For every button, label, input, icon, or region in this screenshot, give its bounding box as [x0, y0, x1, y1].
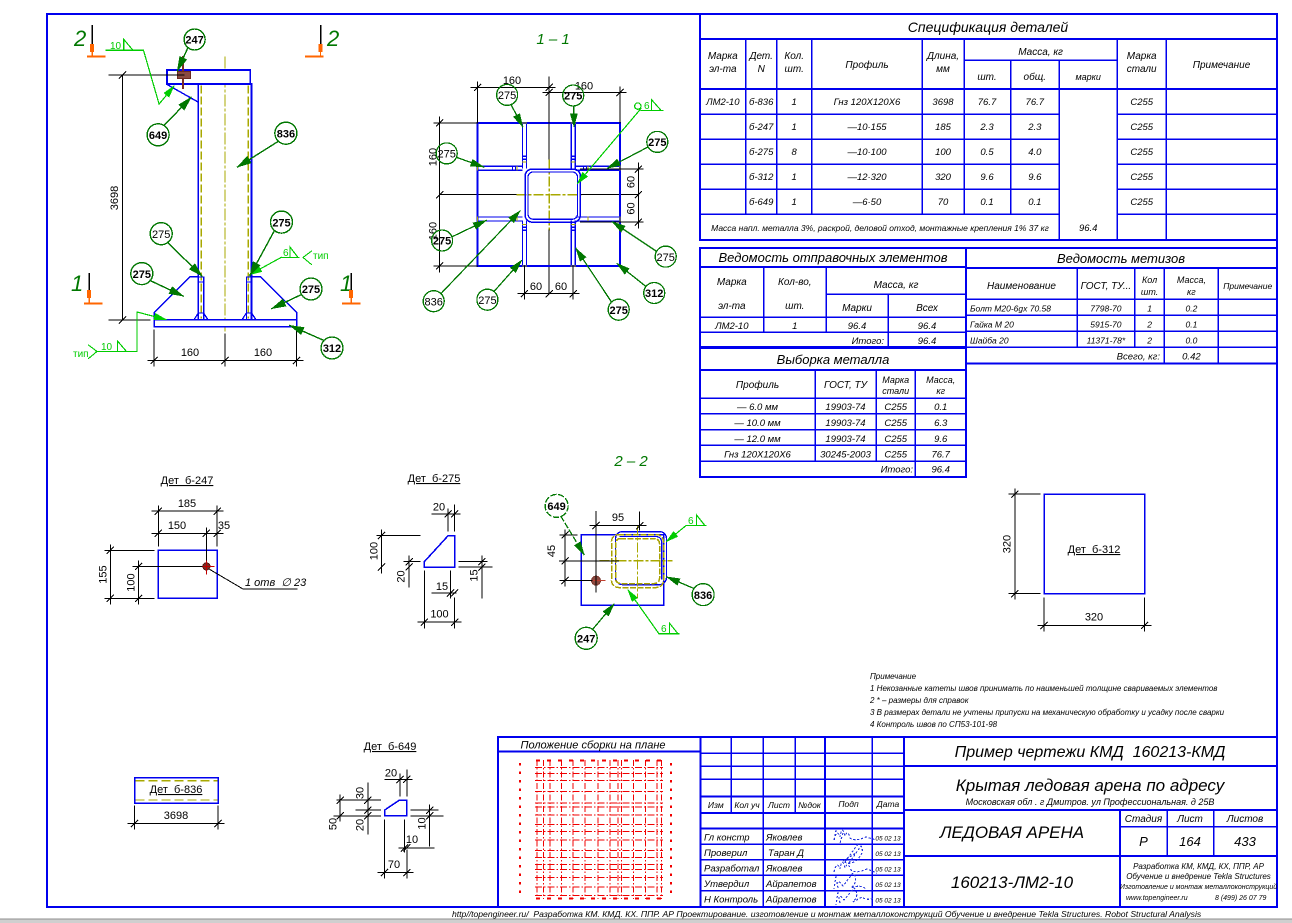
svg-text:185: 185	[935, 122, 952, 133]
vedomost metizov table frame	[966, 248, 1277, 364]
svg-text:275: 275	[610, 305, 628, 317]
callout 275 s11 bottom	[477, 261, 522, 311]
svg-text:Масса, кг: Масса, кг	[874, 280, 919, 291]
vyborka metalla table frame	[700, 348, 966, 477]
hidden dashes at stiffener ends	[478, 123, 621, 266]
svg-text:Масса,: Масса,	[1177, 275, 1206, 285]
svg-text:96.4: 96.4	[918, 336, 937, 347]
svg-text:96.4: 96.4	[1079, 223, 1098, 234]
svg-text:— 10.0 мм: — 10.0 мм	[733, 418, 781, 429]
svg-text:19903-74: 19903-74	[825, 418, 865, 429]
svg-text:649: 649	[547, 501, 565, 513]
svg-text:тип: тип	[313, 251, 329, 262]
svg-text:649: 649	[149, 130, 167, 142]
title texts	[939, 744, 1277, 902]
svg-text:С255: С255	[884, 450, 907, 461]
svg-text:0.0: 0.0	[1185, 336, 1197, 346]
svg-text:1 – 1: 1 – 1	[536, 31, 569, 48]
svg-text:тип: тип	[73, 349, 89, 360]
svg-text:Айрапетов: Айрапетов	[765, 895, 817, 906]
svg-text:76.7: 76.7	[1026, 97, 1045, 108]
svg-text:Марка: Марка	[882, 375, 909, 385]
svg-text:433: 433	[1234, 834, 1256, 849]
callout 247 s22	[575, 604, 614, 649]
svg-text:05 02 13: 05 02 13	[875, 882, 901, 889]
polozhenie sborki box	[498, 737, 701, 907]
svg-text:Дет б-247: Дет б-247	[161, 475, 214, 487]
svg-text:312: 312	[645, 288, 663, 300]
plan grid red	[520, 760, 671, 899]
svg-text:15: 15	[436, 581, 448, 593]
section mark 2 top-right	[306, 26, 339, 57]
callout 275 s11 left	[436, 143, 483, 167]
centerline vertical	[548, 77, 550, 160]
weld 6 s22 top-right	[667, 515, 707, 542]
svg-text:Гл констр: Гл констр	[704, 833, 750, 844]
svg-text:2: 2	[73, 26, 86, 51]
notes text	[869, 672, 1225, 729]
svg-text:45: 45	[546, 545, 558, 557]
svg-text:Дет б-275: Дет б-275	[408, 473, 461, 485]
spec table data	[705, 97, 1154, 234]
svg-text:05 02 13: 05 02 13	[875, 836, 901, 843]
base plate outline 312	[478, 123, 621, 266]
svg-text:1 Некозанные катеты швов прин: 1 Некозанные катеты швов принимать по на…	[870, 684, 1217, 693]
svg-text:Всего, кг:: Всего, кг:	[1117, 352, 1161, 363]
svg-text:Дет б-836: Дет б-836	[150, 784, 203, 796]
svg-text:2.3: 2.3	[1027, 122, 1042, 133]
svg-text:б-312: б-312	[749, 172, 774, 183]
svg-text:ЛМ2-10: ЛМ2-10	[714, 321, 749, 332]
svg-text:С255: С255	[1130, 97, 1153, 108]
right bottom gusset 275	[252, 277, 297, 320]
tube hidden walls	[201, 86, 248, 318]
svg-text:8 (499) 26 07 79: 8 (499) 26 07 79	[1215, 895, 1266, 902]
svg-text:С255: С255	[1130, 122, 1153, 133]
svg-text:275: 275	[302, 284, 320, 296]
svg-text:Кол уч: Кол уч	[734, 800, 760, 810]
detail b-649 dims	[334, 770, 443, 878]
dim 3698 vertical	[109, 75, 184, 320]
svg-text:11371-78*: 11371-78*	[1087, 336, 1126, 346]
svg-text:20: 20	[433, 502, 445, 514]
svg-text:4.0: 4.0	[1028, 147, 1042, 158]
svg-text:05 02 13: 05 02 13	[875, 898, 901, 905]
callout 312 s11	[617, 264, 665, 304]
svg-text:б-836: б-836	[749, 97, 774, 108]
TITLEBLOCK	[498, 672, 1277, 907]
section 2-2 tube above (solid)	[616, 532, 667, 585]
svg-text:Наименование: Наименование	[987, 281, 1056, 292]
detail b-836 dim 3698	[128, 806, 224, 829]
svg-text:С255: С255	[1130, 147, 1153, 158]
svg-text:275: 275	[152, 229, 170, 241]
callout 275 s11 left-lower	[432, 221, 486, 252]
section 2-2 centerlines	[637, 526, 639, 598]
svg-text:0.2: 0.2	[1185, 304, 1197, 314]
svg-text:Дет б-649: Дет б-649	[364, 741, 417, 753]
svg-text:164: 164	[1179, 834, 1201, 849]
detail b-275 plate	[424, 536, 454, 567]
svg-text:Лист: Лист	[767, 800, 790, 810]
svg-text:05 02 13: 05 02 13	[875, 867, 901, 874]
svg-text:3698: 3698	[932, 97, 954, 108]
svg-text:155: 155	[98, 565, 110, 583]
svg-text:2: 2	[326, 26, 339, 51]
svg-text:Марка: Марка	[708, 51, 738, 62]
svg-text:эл-та: эл-та	[718, 301, 746, 312]
svg-text:320: 320	[935, 172, 952, 183]
svg-text:Р: Р	[1139, 834, 1148, 849]
svg-text:Гнз 120X120X6: Гнз 120X120X6	[724, 450, 791, 461]
svg-text:Дет б-312: Дет б-312	[1068, 544, 1121, 556]
dim 160 top-left	[471, 77, 555, 123]
anchor bolt shank	[182, 57, 184, 88]
svg-text:Обучение и внедрение Tekla St: Обучение и внедрение Tekla Structures	[1126, 872, 1271, 881]
svg-text:60: 60	[555, 281, 567, 293]
svg-text:6: 6	[644, 101, 650, 112]
detail b-247 hole	[199, 559, 214, 574]
svg-text:10: 10	[417, 817, 429, 829]
svg-text:Кол: Кол	[1142, 275, 1157, 285]
svg-text:кг: кг	[936, 386, 945, 396]
svg-text:4 Контроль швов по СП53-101-: 4 Контроль швов по СП53-101-98	[870, 720, 998, 729]
callout 836 s22	[667, 577, 714, 606]
svg-text:20: 20	[396, 570, 408, 582]
svg-text:Болт М20-6gх 70.58: Болт М20-6gх 70.58	[970, 304, 1051, 314]
svg-text:0.1: 0.1	[934, 402, 947, 413]
callout 649	[147, 98, 191, 146]
svg-text:б-247: б-247	[749, 122, 774, 133]
revision table	[701, 737, 904, 907]
top plate 247	[167, 70, 250, 84]
svg-text:836: 836	[694, 590, 712, 602]
svg-text:Изм: Изм	[708, 800, 724, 810]
svg-text:—10·155: —10·155	[846, 122, 887, 133]
svg-text:б-649: б-649	[749, 197, 774, 208]
svg-text:6: 6	[283, 248, 289, 259]
svg-text:3 В размерах детали не учтены: 3 В размерах детали не учтены припуски н…	[870, 708, 1225, 717]
svg-text:0.1: 0.1	[980, 197, 993, 208]
detail b-836 tube	[135, 778, 219, 804]
svg-text:2: 2	[1146, 320, 1152, 330]
weld symbol 6 tip mid-right	[250, 247, 312, 275]
spec table frame	[700, 14, 1277, 240]
svg-text:Кол-во,: Кол-во,	[778, 277, 812, 288]
revision header	[708, 799, 900, 810]
svg-text:стали: стали	[1127, 64, 1157, 75]
left bottom gusset 275	[154, 277, 198, 320]
svg-text:1: 1	[792, 172, 797, 183]
svg-text:1: 1	[792, 97, 797, 108]
svg-text:3698: 3698	[109, 186, 121, 210]
svg-text:шт.: шт.	[977, 72, 996, 83]
callout 275 s11 bottom-right	[576, 249, 629, 321]
svg-text:247: 247	[577, 634, 595, 646]
svg-text:Шайба 20: Шайба 20	[970, 336, 1009, 346]
svg-text:Масса,: Масса,	[926, 375, 955, 385]
svg-text:С255: С255	[884, 418, 907, 429]
callout 312	[290, 326, 343, 360]
svg-text:марки: марки	[1075, 72, 1100, 82]
gusset 649 under plate	[168, 84, 198, 102]
svg-text:19903-74: 19903-74	[825, 402, 865, 413]
svg-text:7798-70: 7798-70	[1090, 304, 1121, 314]
callout 275 s11 right-lower	[613, 222, 677, 267]
svg-text:Примечание: Примечание	[1223, 281, 1272, 291]
svg-text:1: 1	[792, 197, 797, 208]
svg-text:320: 320	[1085, 612, 1103, 624]
svg-text:Итого:: Итого:	[881, 465, 914, 476]
svg-text:— 6.0 мм: — 6.0 мм	[736, 402, 778, 413]
svg-text:275: 275	[133, 269, 151, 281]
svg-text:ГОСТ, ТУ...: ГОСТ, ТУ...	[1081, 281, 1132, 292]
bottom stiffener plates at tube faces	[194, 277, 256, 320]
callout 275 s11 top-right	[563, 85, 584, 127]
svg-text:96.4: 96.4	[918, 321, 937, 332]
svg-text:стали: стали	[882, 386, 909, 396]
svg-text:Разработал: Разработал	[704, 864, 760, 875]
svg-text:247: 247	[185, 35, 203, 47]
callout 275 right	[272, 278, 322, 309]
svg-text:100: 100	[430, 609, 448, 621]
svg-text:Положение сборки на плане: Положение сборки на плане	[520, 740, 665, 752]
svg-text:Примечание: Примечание	[870, 672, 917, 681]
section mark 1 mid-right	[340, 271, 360, 304]
dim 60/60 bottom	[518, 266, 579, 299]
svg-text:76.7: 76.7	[931, 450, 950, 461]
svg-text:Примечание: Примечание	[1193, 60, 1251, 71]
svg-text:Гнз 120X120X6: Гнз 120X120X6	[834, 97, 901, 108]
anchor bolt head hatch	[178, 72, 191, 79]
svg-text:б-275: б-275	[749, 147, 774, 158]
svg-text:ЛМ2-10: ЛМ2-10	[705, 97, 740, 108]
svg-text:8: 8	[792, 147, 798, 158]
svg-text:2 – 2: 2 – 2	[613, 453, 648, 470]
svg-text:шт.: шт.	[1141, 287, 1158, 297]
svg-text:Подп: Подп	[838, 799, 859, 809]
svg-text:Гайка М 20: Гайка М 20	[970, 320, 1014, 330]
signature rows	[703, 833, 817, 906]
svg-text:2 * – размеры для справок: 2 * – размеры для справок	[869, 696, 970, 705]
svg-text:кг: кг	[1187, 287, 1196, 297]
svg-text:2: 2	[1146, 336, 1152, 346]
svg-text:275: 275	[478, 295, 496, 307]
weld symbol tip 10 bottom-left	[89, 312, 167, 359]
svg-text:9.6: 9.6	[980, 172, 994, 183]
svg-text:Ведомость метизов: Ведомость метизов	[1057, 251, 1185, 266]
svg-text:Спецификация деталей: Спецификация деталей	[908, 19, 1069, 35]
svg-text:Утвердил: Утвердил	[703, 879, 750, 890]
svg-text:1 отв ∅ 23: 1 отв ∅ 23	[245, 577, 307, 589]
svg-text:Лист: Лист	[1176, 814, 1203, 825]
svg-text:Масса, кг: Масса, кг	[1018, 47, 1063, 58]
svg-text:275: 275	[657, 252, 675, 264]
svg-text:С255: С255	[884, 402, 907, 413]
svg-text:6.3: 6.3	[934, 418, 948, 429]
svg-text:Дет.: Дет.	[748, 51, 773, 62]
svg-text:275: 275	[648, 137, 666, 149]
svg-text:70: 70	[388, 859, 400, 871]
svg-text:275: 275	[498, 90, 516, 102]
svg-text:Марки: Марки	[842, 303, 872, 314]
svg-text:10: 10	[101, 342, 113, 353]
svg-text:320: 320	[1002, 535, 1014, 553]
svg-text:1: 1	[792, 122, 797, 133]
signatures scribbles	[834, 830, 877, 905]
svg-text:60: 60	[626, 202, 638, 214]
column tube shaft 836	[198, 84, 251, 320]
svg-text:836: 836	[277, 128, 295, 140]
weld symbol 10 top	[106, 39, 174, 104]
svg-text:30: 30	[355, 787, 367, 799]
svg-text:Выборка металла: Выборка металла	[777, 352, 890, 367]
callout 275 s11 top-left	[497, 84, 523, 126]
svg-text:150: 150	[168, 520, 186, 532]
svg-text:Разработка КМ, КМД, КХ, ППР, А: Разработка КМ, КМД, КХ, ППР, АР	[1133, 862, 1265, 871]
svg-text:www.topengineer.ru: www.topengineer.ru	[1126, 895, 1188, 902]
weld 6 s22 bottom	[628, 590, 679, 634]
svg-text:160: 160	[254, 347, 272, 359]
detail b-649 plate	[385, 800, 407, 816]
svg-text:—6·50: —6·50	[852, 197, 882, 208]
svg-text:0.42: 0.42	[1182, 352, 1201, 363]
svg-text:275: 275	[433, 236, 451, 248]
svg-text:Яковлев: Яковлев	[765, 864, 803, 875]
svg-text:19903-74: 19903-74	[825, 434, 865, 445]
section mark 2 top-left	[73, 26, 105, 57]
svg-text:Проверил: Проверил	[704, 848, 748, 859]
svg-text:70: 70	[938, 197, 949, 208]
svg-text:1: 1	[1147, 304, 1152, 314]
svg-text:05 02 13: 05 02 13	[875, 851, 901, 858]
svg-text:Таран Д: Таран Д	[768, 848, 804, 859]
dim 60/60 right	[581, 163, 644, 228]
svg-text:10: 10	[406, 834, 418, 846]
svg-text:Московская обл . г Дмитров. у: Московская обл . г Дмитров. ул Профессио…	[966, 797, 1215, 807]
svg-text:160213-ЛМ2-10: 160213-ЛМ2-10	[951, 873, 1074, 892]
svg-text:185: 185	[178, 498, 196, 510]
svg-text:эл-та: эл-та	[709, 64, 737, 75]
svg-text:Длина,: Длина,	[926, 51, 959, 62]
svg-text:0.1: 0.1	[1028, 197, 1041, 208]
section 2-2 plate 247	[581, 535, 663, 605]
svg-text:http//topengineer.ru/ Разрабо: http//topengineer.ru/ Разработка КМ. КМД…	[452, 909, 1202, 919]
svg-text:Дата: Дата	[876, 799, 900, 809]
svg-text:9.6: 9.6	[1028, 172, 1042, 183]
svg-text:100: 100	[935, 147, 952, 158]
svg-text:Профиль: Профиль	[736, 379, 779, 391]
callout 275 left	[131, 263, 183, 296]
vedomost otprav table frame	[700, 248, 966, 347]
svg-text:—10·100: —10·100	[846, 147, 887, 158]
callout 275 s11 right	[608, 131, 668, 168]
svg-text:0.5: 0.5	[980, 147, 994, 158]
svg-text:100: 100	[126, 573, 138, 591]
svg-text:С255: С255	[884, 434, 907, 445]
svg-text:275: 275	[564, 91, 582, 103]
svg-text:9.6: 9.6	[934, 434, 948, 445]
svg-text:N: N	[758, 64, 766, 75]
TABLES	[700, 14, 1277, 477]
svg-text:Профиль: Профиль	[845, 59, 888, 71]
svg-text:15: 15	[469, 569, 481, 581]
svg-text:шт.: шт.	[785, 301, 804, 312]
svg-text:275: 275	[272, 217, 290, 229]
svg-text:275: 275	[438, 149, 456, 161]
svg-text:30245-2003: 30245-2003	[820, 450, 871, 461]
svg-text:Масса напл. металла 3%, раскро: Масса напл. металла 3%, раскрой, деловой…	[711, 223, 1049, 233]
svg-text:Айрапетов: Айрапетов	[765, 879, 817, 890]
svg-text:100: 100	[369, 542, 381, 560]
svg-text:160: 160	[181, 347, 199, 359]
svg-text:ЛЕДОВАЯ АРЕНА: ЛЕДОВАЯ АРЕНА	[939, 823, 1084, 842]
svg-text:10: 10	[110, 41, 122, 52]
dim 160 top-right	[543, 87, 626, 123]
svg-text:20: 20	[355, 819, 367, 831]
dim 160/160 left	[434, 117, 478, 272]
svg-text:Марка: Марка	[717, 277, 747, 288]
DETAILS	[98, 453, 1152, 878]
vertical stiffeners 275	[522, 123, 575, 266]
svg-text:96.4: 96.4	[931, 465, 950, 476]
svg-text:Кол.: Кол.	[784, 51, 804, 62]
svg-text:— 12.0 мм: — 12.0 мм	[733, 434, 781, 445]
svg-text:50: 50	[328, 818, 340, 830]
svg-text:2.3: 2.3	[979, 122, 994, 133]
spec table header	[708, 47, 1251, 83]
svg-text:836: 836	[425, 296, 443, 308]
section 2-2 axes/dim lines	[559, 512, 646, 593]
svg-text:1: 1	[792, 321, 797, 332]
svg-text:С255: С255	[1130, 197, 1153, 208]
callout 275 mid-right	[250, 211, 293, 275]
tube 836 walls	[525, 169, 580, 222]
callout 836	[238, 122, 297, 167]
base plate 312	[154, 320, 296, 327]
section mark 1 mid-left	[71, 271, 102, 304]
detail b-247 dims	[105, 506, 297, 604]
svg-text:Н Контроль: Н Контроль	[704, 895, 758, 906]
svg-text:ГОСТ, ТУ: ГОСТ, ТУ	[824, 380, 869, 391]
svg-text:3698: 3698	[164, 810, 188, 822]
svg-text:0.1: 0.1	[1185, 320, 1197, 330]
centerline horizontal	[440, 194, 517, 196]
svg-text:Итого:: Итого:	[852, 336, 885, 347]
svg-text:1: 1	[71, 271, 83, 296]
title block main	[904, 737, 1277, 907]
svg-text:76.7: 76.7	[978, 97, 997, 108]
svg-text:Листов: Листов	[1226, 814, 1263, 825]
svg-text:35: 35	[218, 520, 230, 532]
detail b-247 plate	[158, 550, 217, 598]
svg-text:Марка: Марка	[1127, 51, 1157, 62]
svg-text:20: 20	[385, 768, 397, 780]
svg-text:Всех: Всех	[916, 303, 939, 314]
svg-text:шт.: шт.	[785, 64, 804, 75]
section 2-2 hole	[587, 572, 605, 589]
callout 247	[178, 29, 206, 71]
callout 649 s22 (dashed)	[545, 494, 584, 554]
callout 275 mid-left	[150, 223, 202, 276]
svg-text:96.4: 96.4	[848, 321, 867, 332]
svg-text:Крытая ледовая арена по адресу: Крытая ледовая арена по адресу	[956, 776, 1226, 795]
svg-text:Яковлев: Яковлев	[765, 833, 803, 844]
horizontal stiffeners 275	[478, 166, 621, 221]
svg-text:6: 6	[688, 516, 694, 527]
centerline column axis	[224, 57, 226, 331]
svg-text:5915-70: 5915-70	[1090, 320, 1121, 330]
